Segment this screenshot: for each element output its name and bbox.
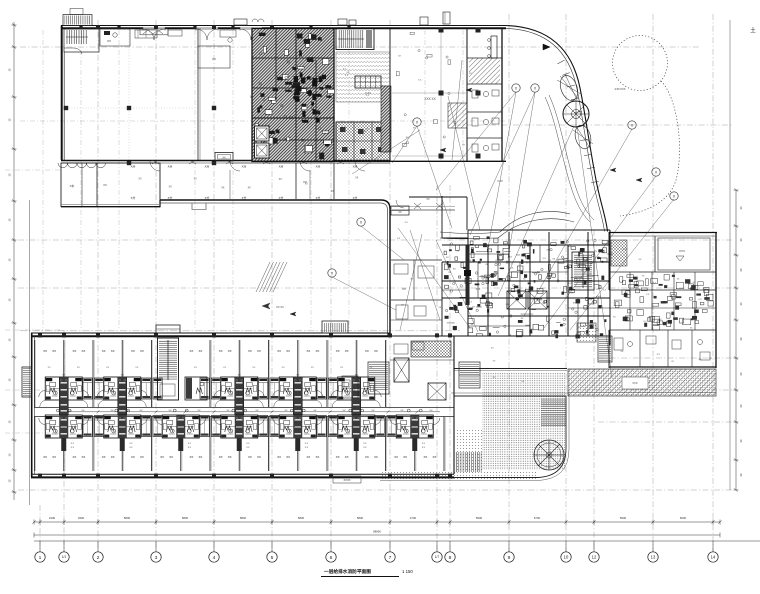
- svg-text:10: 10: [564, 555, 569, 560]
- terrace decking patch upper-right: [541, 398, 566, 426]
- svg-text:4700: 4700: [410, 516, 417, 520]
- svg-text:XXX XX: XXX XX: [424, 97, 436, 101]
- svg-text:XX: XX: [365, 349, 369, 353]
- dimension line left: [8, 22, 17, 500]
- svg-text:XX: XX: [81, 349, 85, 353]
- corridor bottom wall with rounded corner: [160, 200, 390, 336]
- elevator pair in kitchen block: [255, 126, 270, 158]
- svg-text:5900: 5900: [476, 516, 483, 520]
- door arcs into corridor top: [40, 400, 381, 407]
- svg-text:X廾: X廾: [205, 165, 210, 169]
- svg-text:6000: 6000: [680, 516, 687, 520]
- site boundary left: [29, 200, 31, 505]
- svg-text:XX: XX: [219, 455, 223, 459]
- svg-text:XX: XX: [43, 455, 47, 459]
- svg-text:XX: XX: [248, 187, 252, 189]
- room right of hall: [198, 46, 230, 68]
- grid bubble 8: [445, 541, 455, 562]
- shaft hatch patch dining east: [448, 103, 467, 128]
- svg-text:5800: 5800: [357, 516, 364, 520]
- svg-text:1: 1: [39, 555, 42, 561]
- door arcs on top wall: [143, 28, 262, 41]
- room labels bottom row: [43, 455, 436, 459]
- entry porch on wing top wall: [322, 321, 348, 333]
- svg-text:XX: XX: [336, 455, 340, 459]
- grid bubble 1: [35, 541, 45, 562]
- curved wall/road outer: [506, 26, 608, 232]
- wing left exterior wall: [32, 333, 35, 477]
- bathroom cluster bottom 3: [156, 415, 206, 451]
- svg-text:XX: XX: [345, 349, 349, 353]
- svg-text:58800: 58800: [373, 530, 381, 534]
- wardrobe pair bottom 6: [376, 416, 397, 437]
- svg-text:XX: XX: [228, 455, 232, 459]
- stair S2 top (right of kitchen): [336, 29, 374, 50]
- svg-text:XX: XX: [43, 349, 47, 353]
- wardrobe pair top 5: [317, 378, 338, 399]
- svg-text:XX: XX: [219, 349, 223, 353]
- svg-text:X廾: X廾: [168, 165, 173, 169]
- svg-text:XXX: XXX: [632, 381, 637, 385]
- dimension line bottom (total): [34, 530, 720, 538]
- cluster outer walls: [442, 230, 610, 238]
- svg-text:XX: XX: [257, 455, 261, 459]
- tree wheel on terrace: [534, 440, 564, 470]
- svg-text:XX: XX: [315, 455, 319, 459]
- dotted landscape circle: [613, 36, 668, 91]
- grid bubble 2: [93, 541, 103, 562]
- wall: hall bottom / corridor top: [61, 161, 390, 164]
- wing top exterior wall: [31, 333, 390, 336]
- bathroom cluster bottom 2: [97, 415, 147, 451]
- small dim arrows on leaders: [290, 88, 642, 316]
- big terrace dotted paving: [454, 369, 567, 471]
- right block checkered patch: [611, 240, 627, 266]
- svg-text:XX: XX: [303, 180, 307, 184]
- ramp hatch in plaza: [256, 262, 287, 309]
- window X marks along corridor walls: [131, 160, 358, 200]
- svg-text:XX: XX: [169, 455, 173, 459]
- wall below kitchen block: [230, 163, 390, 199]
- svg-text:XXXX: XXXX: [344, 478, 351, 482]
- grid bubble 10: [561, 541, 571, 562]
- svg-text:6: 6: [330, 555, 333, 561]
- wing room partition walls bottom row: [35, 417, 446, 472]
- svg-text:X廾: X廾: [316, 165, 321, 169]
- svg-text:4: 4: [213, 555, 216, 561]
- svg-text:5: 5: [271, 555, 274, 561]
- bathroom cluster bottom 5: [273, 415, 323, 451]
- wardrobe pair bottom 2: [142, 416, 163, 437]
- svg-text:XX: XX: [432, 455, 436, 459]
- svg-text:XX: XX: [107, 39, 111, 43]
- curved wall/road inner: [506, 28, 605, 231]
- svg-text:XX: XX: [52, 455, 56, 459]
- svg-text:X廾: X廾: [353, 165, 358, 169]
- corridor dimension line: [60, 410, 440, 414]
- svg-text:XX: XX: [365, 455, 369, 459]
- wall: top exterior: [61, 26, 506, 29]
- svg-text:XX: XX: [103, 183, 107, 187]
- svg-text:X廾: X廾: [242, 165, 247, 169]
- svg-text:XX: XX: [336, 349, 340, 353]
- left margin grid dashes: [5, 170, 60, 433]
- site boundary right: [729, 20, 731, 490]
- svg-text:XX: XX: [403, 455, 407, 459]
- bathroom half cluster near stair: [185, 377, 207, 400]
- svg-text:5800: 5800: [298, 516, 305, 520]
- svg-text:XX: XX: [306, 455, 310, 459]
- scalloped openings on corridor top wall: [58, 163, 106, 168]
- grid bubble 4: [209, 541, 219, 562]
- right block top labels: [621, 249, 703, 361]
- pipe chase dark band: [464, 245, 471, 305]
- svg-text:X廾: X廾: [279, 165, 284, 169]
- svg-text:XX: XX: [198, 349, 202, 353]
- bathroom cluster bottom 1: [39, 415, 89, 451]
- flag marker: [543, 44, 550, 50]
- big terrace outline with rounded corner: [380, 393, 569, 481]
- road tick marks: [557, 60, 598, 183]
- svg-text:XX: XX: [140, 349, 144, 353]
- lobby counter: [391, 206, 409, 215]
- column near curve top: [488, 36, 497, 58]
- svg-text:7: 7: [389, 555, 392, 561]
- dimension line bottom (bays): [32, 516, 721, 525]
- svg-text:XX: XX: [279, 179, 283, 181]
- wing room partition walls top row: [35, 340, 387, 407]
- kitchen equipment band: [293, 72, 326, 122]
- kitchen/buffet bottom wall: [252, 160, 506, 162]
- wing centerline dash-dot: [20, 330, 460, 332]
- wardrobe pair top 1: [83, 378, 104, 399]
- exit bump below corridor wall: [192, 204, 206, 210]
- svg-text:X廾: X廾: [316, 196, 321, 200]
- svg-text:XX: XX: [72, 455, 76, 459]
- wall: hall right partition: [198, 28, 200, 160]
- svg-text:XX: XX: [139, 179, 143, 181]
- svg-text:X廾: X廾: [205, 196, 210, 200]
- svg-text:XXX: XXX: [679, 249, 685, 253]
- svg-text:XX: XX: [402, 287, 406, 291]
- hall top wall fixtures: [135, 30, 236, 42]
- svg-text:14: 14: [711, 555, 716, 560]
- tree symbol upper: [557, 73, 581, 103]
- curve dim texts: [476, 87, 626, 291]
- stair S4 left edge of right block: [598, 336, 612, 362]
- svg-text:5700: 5700: [534, 516, 541, 520]
- svg-text:XX: XX: [169, 187, 173, 189]
- wing left stair bump: [22, 367, 32, 397]
- title text: [321, 568, 413, 576]
- svg-text:X廾: X廾: [131, 165, 136, 169]
- hall interior dotted grid: [63, 30, 198, 160]
- leader lines mesh: [332, 60, 674, 378]
- pantry checkered block: [336, 122, 390, 161]
- svg-text:XX: XX: [111, 349, 115, 353]
- mid building top wall: [409, 197, 467, 230]
- grid bubble 6: [326, 541, 336, 562]
- exterior stair bump above top wall: [63, 9, 92, 26]
- svg-text:XX: XX: [306, 349, 310, 353]
- svg-text:5800: 5800: [124, 516, 131, 520]
- svg-text:XX: XX: [189, 349, 193, 353]
- grid bubble 9: [504, 541, 514, 562]
- dimension line right: [734, 188, 744, 491]
- svg-text:XX: XX: [423, 455, 427, 459]
- ground line under grid: [34, 540, 760, 542]
- svg-text:4.50 XXX: 4.50 XXX: [615, 87, 626, 91]
- room: vestibule w/ fixtures: [100, 29, 130, 46]
- svg-text:XX XX: XX XX: [276, 305, 284, 309]
- grid bubble 12: [589, 541, 599, 562]
- right block outer walls: [609, 232, 717, 368]
- mid building lower rooms (above corridor right): [342, 336, 454, 474]
- svg-text:X水: X水: [70, 184, 75, 188]
- svg-text:XX: XX: [257, 349, 261, 353]
- right terrace hatched: [568, 369, 716, 396]
- stair S3 (cluster): [572, 252, 594, 290]
- svg-text:5800: 5800: [182, 516, 189, 520]
- wardrobe pair top 4: [259, 378, 280, 399]
- wardrobe pair bottom 3: [200, 416, 221, 437]
- wardrobe pair top 2: [142, 378, 163, 399]
- scattered annotation texts: [343, 55, 713, 382]
- buffet counter table: [355, 76, 381, 95]
- grid bubble 13: [648, 541, 658, 562]
- double door hall entry: [140, 29, 168, 35]
- svg-text:5800: 5800: [240, 516, 247, 520]
- corridor lines: [34, 408, 454, 417]
- svg-text:XX: XX: [228, 349, 232, 353]
- svg-text:2400: 2400: [49, 516, 56, 520]
- small lightwell dotted: [577, 323, 596, 342]
- svg-text:X廾: X廾: [353, 196, 358, 200]
- dining columns: [439, 28, 481, 159]
- svg-text:XX: XX: [198, 455, 202, 459]
- svg-text:1/1: 1/1: [62, 555, 67, 559]
- svg-text:XX: XX: [286, 349, 290, 353]
- wardrobe pair top 3: [200, 378, 221, 399]
- wing stair vestibule bump: [156, 325, 180, 333]
- tree symbol lower: [573, 123, 594, 150]
- dotted strip below wing wall: [380, 472, 538, 480]
- svg-text:XX: XX: [374, 349, 378, 353]
- svg-text:12: 12: [592, 555, 597, 560]
- cluster room grid: [442, 230, 610, 345]
- stair S6: [368, 362, 389, 394]
- svg-text:一层给排水消防平面图: 一层给排水消防平面图: [324, 568, 371, 575]
- svg-text:X廾: X廾: [279, 196, 284, 200]
- svg-text:8: 8: [449, 555, 452, 561]
- kitchen equipment: [255, 33, 334, 160]
- hall door arcs to corridor: [150, 161, 365, 171]
- lower-left block bottom wall: [61, 200, 160, 207]
- wing right stair X-box: [428, 383, 446, 400]
- svg-text:XX: XX: [52, 349, 56, 353]
- leader bubbles: [512, 84, 520, 92]
- svg-text:3: 3: [155, 555, 158, 561]
- elevator pair (cluster): [507, 291, 547, 309]
- bathroom cluster bottom 6: [331, 415, 381, 451]
- grid bubble 5: [267, 541, 277, 562]
- secondary bay grid lines (top building): [43, 30, 463, 330]
- stair S1 top-left: [64, 29, 99, 54]
- right block middle band rooms: [609, 272, 716, 330]
- svg-text:XX: XX: [277, 455, 281, 459]
- svg-text:XX: XX: [189, 455, 193, 459]
- bathroom cluster top 5: [331, 375, 381, 416]
- buffet area zigzag hatch: [336, 52, 390, 102]
- svg-text:5900: 5900: [620, 516, 627, 520]
- svg-text:XX: XX: [131, 349, 135, 353]
- svg-text:13: 13: [651, 555, 656, 560]
- corridor riser circles: [56, 409, 422, 412]
- svg-text:XX: XX: [160, 455, 164, 459]
- svg-text:9: 9: [508, 555, 511, 561]
- right block lower rooms: [609, 330, 716, 368]
- svg-text:XX: XX: [286, 455, 290, 459]
- svg-text:XX: XX: [277, 349, 281, 353]
- svg-text:XX: XX: [345, 455, 349, 459]
- label plate below wing: [333, 476, 361, 483]
- svg-text:X.XX: X.XX: [497, 180, 503, 183]
- bathroom cluster top 1: [39, 375, 89, 416]
- svg-text:3300: 3300: [78, 516, 85, 520]
- svg-text:土: 土: [750, 26, 756, 34]
- svg-text:X廾: X廾: [168, 196, 173, 200]
- grid bubble 14: [708, 541, 718, 562]
- svg-text:XX: XX: [221, 188, 225, 190]
- shaft hatched strip dining west: [381, 86, 391, 152]
- svg-text:XX: XX: [72, 349, 76, 353]
- svg-text:X.XX: X.XX: [623, 249, 629, 251]
- grid bubble 1/7: [432, 541, 442, 562]
- grid bubble 7: [385, 541, 395, 562]
- svg-text:X廾: X廾: [131, 196, 136, 200]
- road median curves: [545, 95, 594, 222]
- svg-text:XX: XX: [248, 349, 252, 353]
- svg-text:XX: XX: [102, 455, 106, 459]
- svg-text:XX: XX: [111, 455, 115, 459]
- horizontal grid lines: [18, 47, 733, 490]
- kitchen hatched area: [252, 29, 334, 162]
- bathroom cluster bottom 4: [214, 415, 264, 451]
- svg-text:XX: XX: [315, 349, 319, 353]
- svg-text:XX: XX: [355, 177, 359, 179]
- wardrobe pair bottom 5: [317, 416, 338, 437]
- wing stair S5: [158, 338, 179, 400]
- grid bubble 3: [151, 541, 161, 562]
- svg-text:XX: XX: [374, 455, 378, 459]
- svg-text:XX: XX: [248, 455, 252, 459]
- porte-cochere south of dining: [392, 198, 455, 210]
- svg-text:XX: XX: [194, 179, 198, 181]
- svg-text:XX: XX: [131, 455, 135, 459]
- small rooms left of corridor: [61, 163, 160, 207]
- kitchen internal walls: [252, 28, 334, 161]
- cluster fixtures: [444, 236, 608, 338]
- grid bubble 1/1: [59, 541, 69, 562]
- bathroom cluster top 4: [273, 375, 323, 416]
- bathroom cluster top 3: [214, 375, 264, 416]
- bathroom cluster bottom 7: [390, 415, 440, 451]
- closet box above corridor: [215, 153, 233, 162]
- roof vents above top wall: [234, 12, 450, 25]
- lobby lower rooms: [391, 300, 442, 320]
- svg-text:XX: XX: [426, 198, 430, 201]
- lobby room partitions: [391, 260, 442, 300]
- svg-text:XX: XX: [102, 349, 106, 353]
- wardrobe pair bottom 4: [259, 416, 280, 437]
- corridor annotation marks: [139, 170, 359, 199]
- svg-text:1/7: 1/7: [435, 555, 440, 559]
- dining room (open, dashed grid): [390, 28, 466, 161]
- svg-text:1 150: 1 150: [402, 569, 413, 574]
- svg-text:XX: XX: [398, 211, 402, 214]
- right block top rooms: [609, 236, 716, 272]
- driveway curves: [440, 211, 574, 238]
- terrace decking patch lower-left: [455, 452, 482, 472]
- dotted landscape teardrop: [620, 81, 680, 216]
- wing bottom exterior wall: [31, 474, 454, 477]
- secondary horizontal grid (top building): [20, 120, 505, 122]
- svg-text:XX: XX: [140, 455, 144, 459]
- svg-text:XX: XX: [222, 157, 226, 160]
- room labels top row: [43, 349, 378, 369]
- bathroom cluster top 2: [97, 375, 147, 416]
- svg-text:XX: XX: [81, 455, 85, 459]
- columns on grid (top block): [64, 25, 351, 165]
- wardrobe pair bottom 1: [83, 416, 104, 437]
- svg-text:2: 2: [97, 555, 100, 561]
- wall: left exterior: [62, 26, 64, 161]
- tree circle with hub: [563, 101, 589, 127]
- svg-text:XX: XX: [212, 57, 216, 61]
- svg-text:X廾: X廾: [242, 196, 247, 200]
- outdoor stair to terrace: [459, 362, 480, 388]
- service rooms column (east wing): [467, 28, 502, 161]
- columns wing grid: [38, 333, 452, 477]
- lobby east wall: [441, 196, 443, 336]
- svg-text:XX: XX: [394, 455, 398, 459]
